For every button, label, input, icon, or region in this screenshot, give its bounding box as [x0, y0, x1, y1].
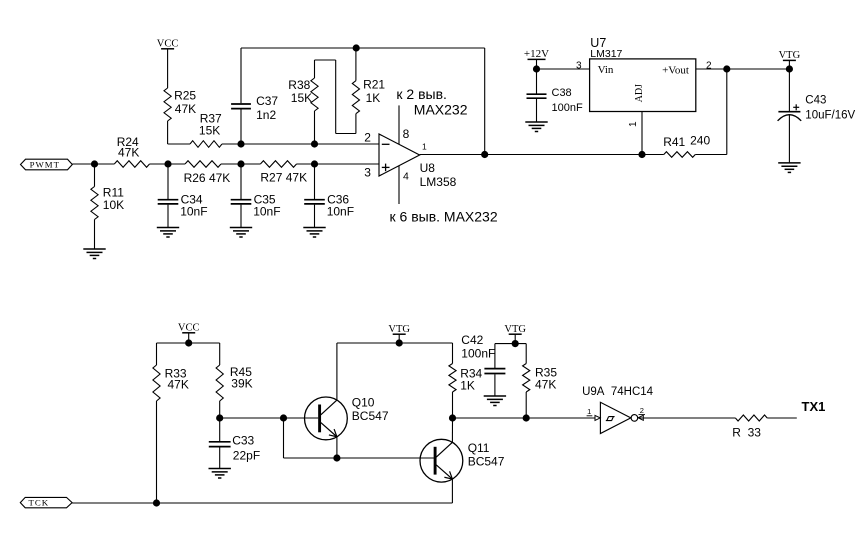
svg-text:Q11: Q11 [468, 441, 490, 455]
svg-text:VCC: VCC [178, 323, 200, 334]
svg-text:1K: 1K [366, 91, 381, 105]
svg-text:C43: C43 [805, 95, 826, 107]
svg-text:1: 1 [422, 141, 427, 151]
svg-text:к 2 выв.: к 2 выв. [396, 86, 447, 102]
svg-text:4: 4 [403, 171, 409, 183]
svg-text:R27 47K: R27 47K [260, 171, 307, 185]
svg-text:+Vout: +Vout [662, 64, 689, 76]
svg-text:10nF: 10nF [253, 204, 280, 218]
svg-text:R21: R21 [363, 78, 385, 92]
svg-text:Q10: Q10 [352, 396, 375, 410]
svg-text:15K: 15K [199, 124, 220, 138]
svg-text:47K: 47K [175, 102, 196, 116]
svg-text:22pF: 22pF [233, 449, 260, 463]
svg-text:VCC: VCC [157, 39, 179, 50]
svg-text:39K: 39K [231, 377, 252, 391]
svg-text:R 33: R 33 [732, 426, 761, 440]
svg-text:C33: C33 [232, 434, 254, 448]
svg-text:C38: C38 [552, 87, 572, 99]
svg-text:15K: 15K [291, 91, 312, 105]
svg-text:TX1: TX1 [802, 399, 826, 414]
svg-text:PWMT: PWMT [30, 160, 60, 170]
svg-text:10uF/16V: 10uF/16V [805, 109, 855, 121]
svg-text:47K: 47K [118, 146, 139, 160]
svg-text:C42: C42 [461, 333, 483, 347]
svg-text:TCK: TCK [28, 497, 49, 507]
svg-text:VTG: VTG [779, 50, 801, 61]
svg-text:U9A 74HC14: U9A 74HC14 [582, 386, 654, 398]
svg-text:10K: 10K [103, 198, 124, 212]
svg-text:MAX232: MAX232 [414, 101, 468, 117]
svg-text:R41: R41 [663, 135, 685, 149]
svg-text:47K: 47K [535, 378, 556, 392]
svg-text:VTG: VTG [388, 324, 410, 335]
svg-text:R26 47K: R26 47K [184, 171, 231, 185]
svg-text:47K: 47K [168, 378, 189, 392]
svg-text:BC547: BC547 [352, 409, 389, 423]
svg-text:VTG: VTG [504, 324, 526, 335]
svg-text:1n2: 1n2 [256, 108, 276, 122]
svg-text:Vin: Vin [598, 64, 614, 76]
svg-text:3: 3 [576, 60, 582, 71]
svg-text:к 6 выв. MAX232: к 6 выв. MAX232 [390, 209, 498, 225]
svg-text:C37: C37 [256, 94, 278, 108]
svg-text:240: 240 [690, 134, 710, 148]
svg-text:2: 2 [640, 406, 644, 415]
svg-text:8: 8 [403, 127, 410, 141]
svg-text:LM358: LM358 [420, 175, 457, 189]
svg-text:2: 2 [706, 60, 712, 71]
svg-text:+12V: +12V [524, 48, 549, 60]
svg-text:1: 1 [628, 121, 639, 127]
svg-text:3: 3 [364, 166, 371, 180]
svg-text:BC547: BC547 [468, 455, 505, 469]
svg-text:1: 1 [587, 407, 591, 416]
svg-text:ADJ: ADJ [634, 84, 645, 102]
svg-text:2: 2 [364, 130, 371, 144]
svg-text:R25: R25 [174, 89, 196, 103]
svg-text:R38: R38 [288, 78, 310, 92]
svg-text:1K: 1K [460, 379, 475, 393]
svg-text:10nF: 10nF [180, 204, 207, 218]
svg-text:LM317: LM317 [590, 48, 622, 60]
svg-text:100nF: 100nF [552, 102, 583, 114]
svg-text:U8: U8 [420, 161, 436, 175]
svg-text:10nF: 10nF [327, 204, 354, 218]
svg-text:100nF: 100nF [461, 347, 495, 361]
